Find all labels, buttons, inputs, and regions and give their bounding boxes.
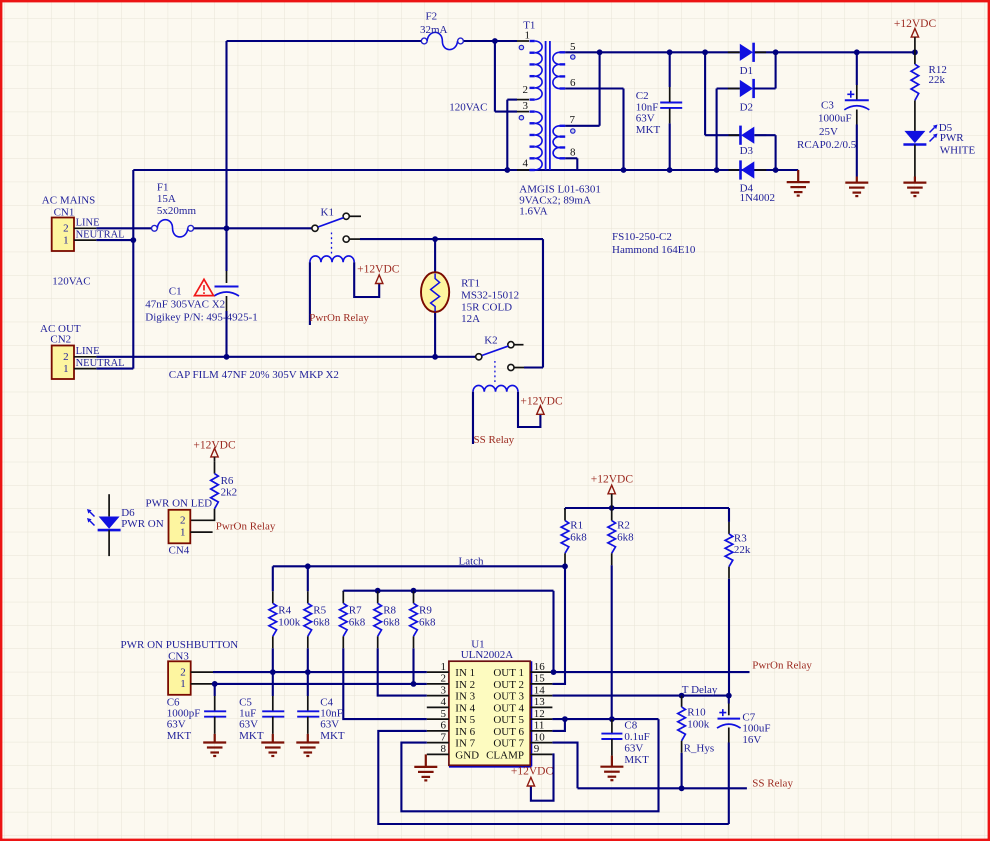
wire CN1 pin1 to neutral bus	[96, 239, 133, 241]
node F1 / C1 / line bus junction	[224, 225, 230, 231]
wire pin5-pin7 tie vertical	[599, 52, 601, 126]
svg-text:PwrOn Relay: PwrOn Relay	[216, 520, 276, 532]
wire C6 bottom lead	[214, 717, 216, 734]
wire D2 anode	[717, 87, 740, 89]
wire pin6 drop	[622, 89, 624, 171]
wire C7 bottom to IN6 loop	[728, 743, 730, 825]
node RT1 bottom junction	[432, 354, 438, 360]
relay contact terminal	[508, 342, 514, 348]
node R9/IN2	[411, 681, 417, 687]
svg-text:12A: 12A	[461, 313, 480, 325]
capacitor C6	[204, 711, 226, 716]
pin U1.5 (IN 5)	[427, 718, 449, 720]
svg-text:22k: 22k	[734, 544, 751, 556]
svg-text:MS32-15012: MS32-15012	[461, 289, 519, 301]
node C6 top	[212, 681, 218, 687]
svg-text:IN 2: IN 2	[455, 679, 475, 691]
wire CN2 pin1 to neutral bus	[96, 368, 133, 370]
svg-text:2: 2	[523, 84, 529, 96]
wire port stem (logic)	[611, 494, 613, 508]
wire D2 cathode riser	[775, 52, 777, 88]
svg-text:22k: 22k	[929, 74, 946, 86]
node C1 bottom junction	[224, 354, 230, 360]
svg-text:63V: 63V	[167, 719, 186, 731]
svg-text:100k: 100k	[278, 617, 301, 629]
wire K2 coil to +12VDC	[518, 392, 540, 427]
svg-text:13: 13	[534, 696, 546, 708]
wire D5 cathode	[914, 145, 916, 177]
pin U1.6 (IN 6)	[427, 730, 449, 732]
svg-text:PWR ON LED: PWR ON LED	[146, 497, 213, 509]
wire NEUTRAL vertical x=133.3	[132, 170, 134, 369]
svg-text:MKT: MKT	[636, 124, 661, 136]
wire K2 NO stub	[514, 344, 524, 346]
wire Latch to OUT2 pin15	[552, 566, 565, 684]
node +12VDC stem	[609, 505, 615, 511]
pin CN2.1	[74, 368, 96, 370]
svg-text:C1: C1	[169, 285, 182, 297]
svg-text:6k8: 6k8	[570, 532, 587, 544]
svg-text:OUT 3: OUT 3	[493, 691, 524, 703]
pin R10 top	[681, 696, 683, 707]
pin U1.16 (OUT 1)	[530, 671, 552, 673]
svg-text:PWR: PWR	[940, 132, 965, 144]
svg-text:6k8: 6k8	[617, 532, 634, 544]
pin R2 bottom	[611, 553, 613, 565]
wire pin 2 to tie	[507, 99, 517, 101]
wire R12 to D5	[914, 100, 916, 130]
svg-text:C2: C2	[636, 90, 649, 102]
node OUT1 / R7R8R9 rail	[551, 669, 557, 675]
wire T1 pin 7	[565, 125, 599, 127]
ground (C3)	[845, 177, 868, 197]
svg-text:CAP FILM 47NF 20% 305V MKP X2: CAP FILM 47NF 20% 305V MKP X2	[169, 369, 339, 381]
svg-text:0.1uF: 0.1uF	[624, 731, 649, 743]
node D2/rail	[714, 167, 720, 173]
resistor R7	[340, 603, 348, 636]
diode D1	[740, 44, 753, 61]
svg-text:ULN2002A: ULN2002A	[461, 649, 514, 661]
wire C3 bottom	[856, 125, 858, 177]
pin C3 top	[856, 85, 858, 100]
svg-text:D3: D3	[740, 145, 754, 157]
pin K1 NC	[349, 238, 360, 240]
relay coil K2	[473, 385, 518, 391]
pin R5 bottom	[307, 636, 309, 648]
pin U1.2 (IN 2)	[427, 683, 449, 685]
wire R7 to IN5	[343, 648, 427, 719]
svg-text:Latch: Latch	[459, 556, 485, 568]
capacitor C8	[601, 734, 622, 739]
wire Latch to R4	[272, 566, 274, 591]
svg-text:OUT 4: OUT 4	[493, 702, 524, 714]
node C2 top	[667, 49, 673, 55]
wire D2 cathode	[754, 87, 776, 89]
wire K1 NC to RT1	[360, 238, 435, 240]
svg-text:R4: R4	[278, 605, 291, 617]
svg-text:1N4002: 1N4002	[740, 192, 775, 204]
ground (rectifier return)	[787, 170, 810, 196]
node R5/Latch	[305, 563, 311, 569]
pin U1.15 (OUT 2)	[530, 683, 552, 685]
svg-text:K2: K2	[484, 335, 497, 347]
svg-text:14: 14	[534, 684, 546, 696]
node R10/SS rail	[679, 785, 685, 791]
wire RT1 top	[434, 239, 436, 272]
wire OUT7 to SS rail	[552, 743, 577, 789]
svg-text:100k: 100k	[687, 718, 710, 730]
wire K1 NO stub	[349, 215, 361, 217]
svg-text:15A: 15A	[157, 193, 176, 205]
wire CN1 pin2 to F1	[96, 227, 151, 229]
capacitor C5	[262, 711, 284, 716]
connector CN4 (PWR ON LED)	[169, 510, 191, 544]
pin R4 bottom	[272, 636, 274, 648]
D6 emission arrow 1	[90, 512, 95, 517]
node R4/C5 on IN1 rail	[270, 669, 276, 675]
resistor R3	[725, 534, 733, 567]
wire pin8 drop	[576, 158, 578, 170]
svg-text:CN2: CN2	[50, 333, 71, 345]
node T1 pin1 / pin3 tie	[492, 38, 498, 44]
svg-text:PwrOn Relay: PwrOn Relay	[752, 660, 812, 672]
svg-text:1: 1	[441, 661, 447, 673]
svg-text:IN 4: IN 4	[455, 702, 475, 714]
T1 core	[545, 41, 547, 170]
svg-text:15R COLD: 15R COLD	[461, 301, 512, 313]
diode D3	[739, 126, 742, 145]
svg-text:16: 16	[534, 661, 546, 673]
wire R9 to IN2 rail	[412, 648, 414, 684]
pin R9 bottom	[413, 636, 415, 648]
wire D3 cathode	[705, 134, 740, 136]
svg-text:PWR ON: PWR ON	[121, 518, 164, 530]
wire C8 bottom lead	[611, 739, 613, 756]
svg-text:PwrOn Relay: PwrOn Relay	[309, 312, 369, 324]
wire R10 to SS Relay rail	[681, 753, 683, 789]
node pin5/pin7 tie	[597, 49, 603, 55]
wire C4 top	[307, 672, 309, 696]
pin R9 top	[413, 591, 415, 603]
pin U1.4 (IN 4)	[427, 706, 449, 708]
wire vertical LINE bus x=226.5	[225, 41, 227, 271]
svg-text:R8: R8	[383, 605, 396, 617]
wire K1 coil to +12VDC	[354, 262, 379, 297]
ground (U1 GND)	[414, 754, 437, 780]
pin R2 top	[611, 509, 613, 521]
pin CN3.1	[191, 683, 213, 685]
wire DC rail A to D1	[600, 51, 740, 53]
svg-text:OUT 6: OUT 6	[493, 726, 524, 738]
ground (C4)	[296, 734, 319, 756]
pin C6 top	[214, 696, 216, 711]
wire rail to R1	[564, 508, 566, 510]
connector CN2 (AC OUT)	[52, 346, 74, 380]
pin CN1.1	[74, 239, 96, 241]
svg-text:RT1: RT1	[461, 278, 480, 290]
pin D3 anode	[754, 134, 766, 136]
wire SS Relay rail	[578, 787, 747, 789]
pin D1 anode	[728, 51, 740, 53]
pin R8 top	[377, 591, 379, 603]
svg-text:MKT: MKT	[624, 754, 649, 766]
resistor R12	[911, 64, 919, 100]
wire R7R8R9 rail	[343, 590, 553, 592]
svg-text:120VAC: 120VAC	[449, 102, 487, 114]
svg-text:NEUTRAL: NEUTRAL	[76, 358, 125, 369]
wire T1 pin 6	[565, 87, 623, 89]
resistor R8	[374, 603, 382, 636]
resistor R5	[304, 603, 312, 636]
pin U1.13 (OUT 4)	[530, 706, 552, 708]
wire C1 bottom to AC OUT rail	[225, 311, 227, 357]
node pin6/rail	[621, 167, 627, 173]
LED D6 body	[99, 517, 120, 529]
pin C7 top	[728, 704, 730, 716]
svg-text:63V: 63V	[320, 719, 339, 731]
node R12/+12VDC	[912, 49, 918, 55]
svg-text:8: 8	[570, 147, 576, 159]
pin U1.9 (CLAMP)	[530, 753, 552, 755]
svg-text:6k8: 6k8	[419, 617, 436, 629]
wire OUT6 to OUT5 rail	[552, 719, 565, 731]
svg-text:C4: C4	[320, 696, 333, 708]
ground (C5)	[261, 734, 284, 756]
svg-text:+12VDC: +12VDC	[511, 766, 554, 778]
relay contact terminal	[343, 236, 349, 242]
node R10 top	[679, 693, 685, 699]
svg-text:11: 11	[534, 720, 545, 732]
svg-text:+12VDC: +12VDC	[193, 439, 236, 451]
svg-text:Hammond 164E10: Hammond 164E10	[612, 244, 696, 256]
svg-text:12: 12	[534, 708, 545, 720]
wire CLAMP to +12VDC	[531, 754, 554, 800]
pin R12 top	[914, 52, 916, 64]
pin D4 anode	[754, 169, 766, 171]
node C2 bottom	[667, 167, 673, 173]
svg-text:6k8: 6k8	[313, 617, 330, 629]
pin D2 anode	[728, 88, 740, 90]
IC U1 ULN2002A body	[449, 765, 531, 767]
relay contact terminal	[312, 225, 318, 231]
T1 secondary winding 2	[553, 126, 559, 158]
power port +12VDC (logic)	[608, 485, 615, 494]
wire Latch to R5	[307, 566, 309, 591]
pin D4 cathode	[729, 169, 741, 171]
svg-text:2: 2	[441, 673, 447, 685]
svg-text:1000uF: 1000uF	[818, 113, 852, 125]
svg-text:OUT 7: OUT 7	[493, 738, 524, 750]
svg-text:C8: C8	[624, 719, 637, 731]
svg-text:R1: R1	[570, 520, 583, 532]
svg-text:6k8: 6k8	[383, 617, 400, 629]
svg-text:AC MAINS: AC MAINS	[42, 195, 95, 207]
resistor R1	[561, 521, 569, 554]
node R2/C8	[609, 716, 615, 722]
svg-text:+12VDC: +12VDC	[591, 474, 634, 486]
capacitor C3	[845, 99, 869, 101]
svg-text:25V: 25V	[819, 126, 838, 138]
resistor R4	[269, 603, 277, 636]
node R3/C7	[726, 693, 732, 699]
wire C5 bottom lead	[272, 717, 274, 734]
svg-text:SS Relay: SS Relay	[752, 777, 793, 789]
svg-text:1: 1	[63, 234, 69, 246]
wire port to R6	[214, 457, 216, 462]
pin R1 top	[564, 509, 566, 521]
pin R3 bottom	[728, 567, 730, 579]
svg-text:8: 8	[441, 743, 447, 755]
pin U1.14 (OUT 3)	[530, 695, 552, 697]
wire Latch rail	[273, 565, 565, 567]
T1 primary winding 1	[535, 41, 542, 100]
pin R3 top	[728, 522, 730, 534]
pin D1 cathode	[754, 51, 766, 53]
svg-text:K1: K1	[321, 207, 334, 219]
svg-text:GND: GND	[455, 749, 479, 761]
wire K2 NC stub	[524, 366, 543, 368]
svg-text:R2: R2	[617, 520, 630, 532]
pin C7 bottom	[728, 728, 730, 743]
wire +12VDC distribution rail	[565, 507, 729, 509]
wire secondary/neutral bottom rail y=170	[133, 169, 798, 171]
capacitor C4	[297, 711, 319, 716]
pin C5 top	[272, 696, 274, 711]
wire top rail to fuse F2	[227, 40, 425, 42]
svg-text:6: 6	[570, 77, 576, 89]
wire F1 to K1 common	[194, 227, 312, 229]
svg-text:47nF 305VAC X2: 47nF 305VAC X2	[145, 299, 225, 311]
svg-text:15: 15	[534, 673, 546, 685]
thermistor RT1	[421, 272, 449, 312]
svg-text:D2: D2	[740, 102, 753, 114]
svg-text:WHITE: WHITE	[940, 144, 976, 156]
LED D5	[904, 131, 925, 143]
node R8 top	[375, 588, 381, 594]
svg-text:5: 5	[441, 708, 447, 720]
wire IN6 loop	[378, 731, 729, 824]
power port +12VDC (CLAMP)	[527, 777, 534, 786]
svg-text:IN 3: IN 3	[455, 691, 475, 703]
wire RT1 bottom	[434, 312, 436, 357]
wire to pin 3	[495, 111, 517, 113]
svg-text:1: 1	[180, 678, 186, 690]
pin U1.3 (IN 3)	[427, 695, 449, 697]
relay coil K1	[310, 256, 354, 262]
wire D3 anode	[755, 134, 776, 136]
svg-text:R10: R10	[687, 707, 706, 719]
power port +12VDC (top right)	[911, 29, 918, 38]
pin C1 bottom	[226, 296, 228, 311]
diode D4	[739, 160, 742, 179]
K2 armature	[482, 346, 508, 355]
svg-text:9: 9	[534, 743, 540, 755]
wire C3 top	[856, 52, 858, 85]
svg-text:1: 1	[525, 30, 531, 42]
svg-text:7: 7	[441, 731, 447, 743]
relay contact terminal	[343, 213, 349, 219]
svg-text:1: 1	[180, 527, 186, 539]
svg-text:MKT: MKT	[167, 730, 192, 742]
wire rail to R3	[728, 508, 730, 522]
pin C1 top	[226, 271, 228, 283]
resistor R2	[608, 521, 616, 554]
ground (C6)	[203, 734, 226, 756]
pin K2 NC	[514, 367, 524, 369]
D6 emission arrow 2	[90, 521, 95, 526]
node CN1 neutral junction	[130, 237, 136, 243]
pin CN3.2	[191, 671, 213, 673]
wire D3 anode drop	[775, 135, 777, 170]
node R5/C4 on IN1 rail	[305, 669, 311, 675]
wire C4 bottom lead	[307, 717, 309, 734]
relay contact terminal	[508, 364, 514, 370]
svg-text:120VAC: 120VAC	[52, 275, 90, 287]
wire T1 pin 5	[565, 51, 599, 53]
pin T1.3	[517, 111, 529, 113]
pin U1.8 (GND)	[427, 753, 449, 755]
fuse F2	[421, 38, 427, 44]
svg-text:+12VDC: +12VDC	[357, 263, 400, 275]
svg-text:C6: C6	[167, 696, 180, 708]
resistor R6	[211, 474, 219, 509]
svg-text:C3: C3	[821, 99, 834, 111]
D5 emission arrow 1	[930, 128, 935, 133]
K2 actuator dashed link	[494, 361, 496, 383]
wire D2 anode drop	[716, 89, 718, 171]
pin U1.1 (IN 1)	[427, 671, 449, 673]
pin R8 bottom	[377, 636, 379, 648]
K1 armature	[318, 218, 344, 227]
svg-text:10: 10	[534, 731, 546, 743]
wire CN3.1 to IN2	[213, 683, 427, 685]
warning triangle symbol	[195, 279, 214, 295]
capacitor C7	[718, 718, 741, 720]
wire R4 to IN1 rail	[272, 648, 274, 672]
wire D6 anode	[108, 494, 110, 516]
svg-text:1.6VA: 1.6VA	[519, 206, 547, 218]
svg-text:2k2: 2k2	[221, 486, 238, 498]
relay contact terminal	[476, 354, 482, 360]
svg-text:R7: R7	[349, 605, 362, 617]
svg-text:SS Relay: SS Relay	[474, 434, 515, 446]
wire K2 coil to SS Relay label	[472, 392, 474, 444]
svg-text:IN 5: IN 5	[455, 714, 475, 726]
wire OUT5 loop to IN7	[401, 719, 658, 811]
svg-text:6: 6	[441, 720, 447, 732]
pin CN2.2	[74, 356, 96, 358]
pin U1.12 (OUT 5)	[530, 718, 552, 720]
wire D1 cathode to +12VDC rail	[754, 51, 915, 53]
pin R6 top	[214, 462, 216, 474]
svg-text:IN 1: IN 1	[455, 667, 475, 679]
svg-text:OUT 5: OUT 5	[493, 714, 524, 726]
svg-text:3: 3	[523, 100, 529, 112]
wire D6 cathode	[108, 530, 110, 556]
wire R8 to IN3	[378, 648, 427, 695]
svg-text:F1: F1	[157, 181, 169, 193]
node R9 top	[411, 588, 417, 594]
pin R7 top	[342, 591, 344, 603]
wire T Delay rail (OUT3)	[552, 695, 728, 697]
wire C6 top	[214, 684, 216, 696]
power port +12VDC (K1 coil)	[376, 275, 383, 284]
svg-text:LINE: LINE	[76, 346, 100, 357]
svg-text:R5: R5	[313, 605, 326, 617]
pin R10 bottom	[681, 741, 683, 753]
pin U1.10 (OUT 7)	[530, 742, 552, 744]
svg-text:F2: F2	[426, 11, 438, 23]
